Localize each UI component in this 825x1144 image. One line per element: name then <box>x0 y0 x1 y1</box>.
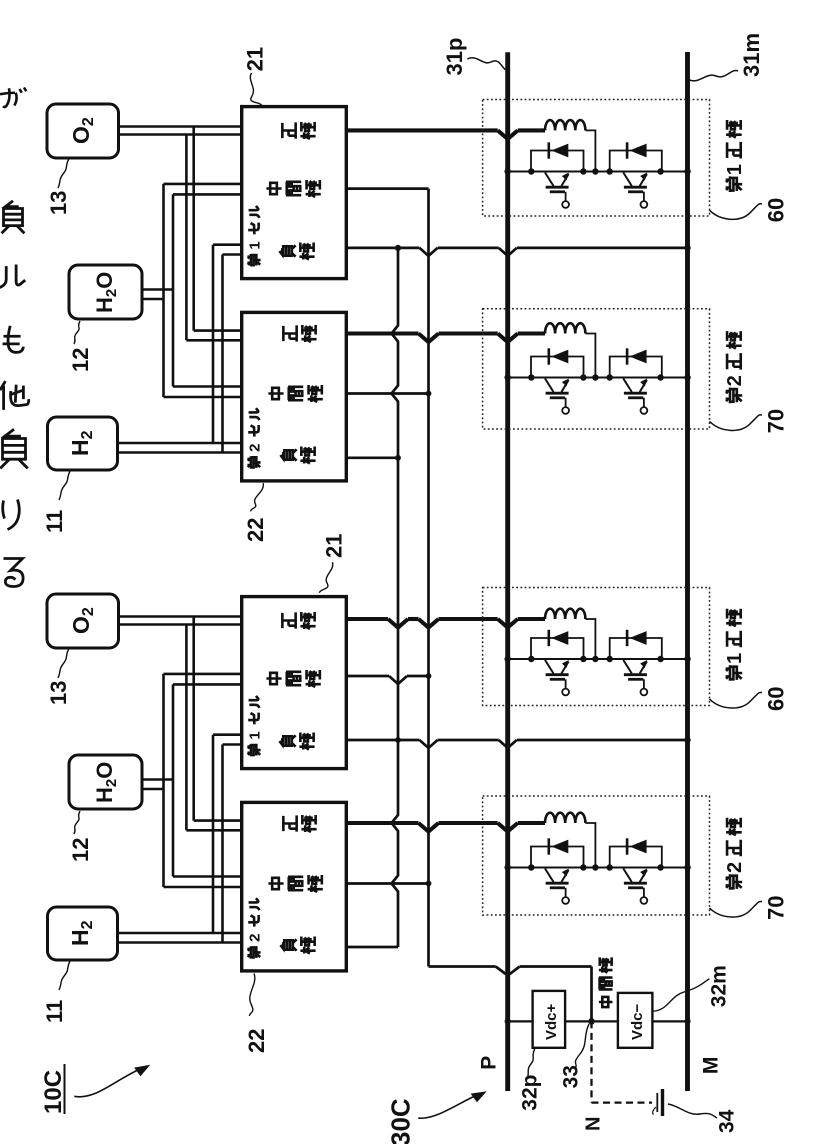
svg-text:Vdc+: Vdc+ <box>543 1003 560 1040</box>
svg-text:32p: 32p <box>519 1075 542 1111</box>
svg-text:60: 60 <box>764 198 789 222</box>
svg-text:21: 21 <box>243 47 268 71</box>
svg-text:12: 12 <box>68 838 93 862</box>
svg-text:1: 1 <box>247 241 264 249</box>
svg-text:N: N <box>583 1117 605 1131</box>
svg-text:1: 1 <box>247 731 264 739</box>
svg-text:1: 1 <box>724 164 746 175</box>
svg-text:M: M <box>699 1057 722 1075</box>
svg-text:70: 70 <box>764 409 789 433</box>
svg-text:2: 2 <box>724 375 746 386</box>
svg-text:2: 2 <box>247 934 264 942</box>
svg-text:22: 22 <box>244 1029 269 1053</box>
svg-text:11: 11 <box>42 1000 67 1023</box>
svg-text:P: P <box>477 1056 500 1070</box>
svg-text:34: 34 <box>716 1109 739 1133</box>
svg-text:10C: 10C <box>40 1070 67 1114</box>
svg-text:31m: 31m <box>739 33 764 77</box>
svg-text:2: 2 <box>724 862 746 873</box>
svg-text:13: 13 <box>46 681 71 705</box>
svg-text:30C: 30C <box>386 1098 416 1144</box>
svg-text:21: 21 <box>322 534 347 558</box>
svg-text:2: 2 <box>247 444 264 452</box>
svg-text:33: 33 <box>559 1065 582 1088</box>
svg-text:Vdc−: Vdc− <box>629 1003 646 1040</box>
svg-text:1: 1 <box>724 653 746 664</box>
svg-text:70: 70 <box>764 896 789 920</box>
svg-text:31p: 31p <box>442 38 467 76</box>
svg-text:32m: 32m <box>708 965 731 1007</box>
svg-text:12: 12 <box>68 348 93 372</box>
svg-text:60: 60 <box>764 687 789 711</box>
svg-text:22: 22 <box>243 518 268 542</box>
svg-text:11: 11 <box>42 510 67 533</box>
svg-text:13: 13 <box>46 191 71 215</box>
